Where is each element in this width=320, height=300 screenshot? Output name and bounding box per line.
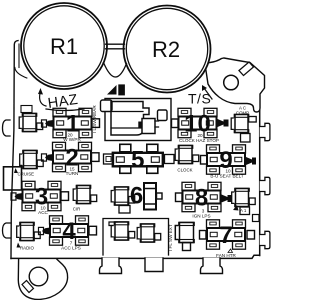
right tab 1 bbox=[260, 123, 270, 140]
fuse 4 bbox=[50, 216, 89, 245]
fuse 9 bbox=[207, 145, 246, 174]
svg-text:TURN: TURN bbox=[66, 171, 79, 176]
HAZ underline bbox=[46, 109, 84, 111]
bottom tab 2 bbox=[145, 258, 163, 272]
mounting tab notch bbox=[239, 62, 254, 76]
fuse 3 left connector bbox=[15, 193, 23, 200]
svg-text:8: 8 bbox=[195, 184, 208, 211]
foot slot bbox=[22, 281, 34, 293]
center rect corner square bbox=[101, 100, 113, 112]
fuse 3 right connector bbox=[61, 192, 69, 201]
center big rectangle bbox=[105, 99, 171, 141]
svg-text:ACC: ACC bbox=[38, 210, 48, 215]
svg-text:IGN LPS: IGN LPS bbox=[192, 214, 210, 219]
label A 1 arrow bbox=[233, 205, 239, 211]
relay row4 mid1 top bracket bbox=[109, 222, 117, 226]
mounting tab hole bbox=[224, 75, 239, 90]
panel left edge bbox=[11, 41, 18, 259]
svg-text:R1: R1 bbox=[50, 34, 78, 59]
circuit breaker R2 inner bbox=[126, 8, 207, 89]
fuse 1 right connector bbox=[92, 119, 100, 128]
fuse 8 left connector bbox=[176, 193, 183, 202]
fuse 3 bbox=[22, 181, 61, 210]
relay cig bbox=[73, 185, 97, 203]
left tab 1 bbox=[3, 120, 11, 136]
fuse 5 left connector bbox=[104, 154, 114, 164]
A/C comp below square bbox=[241, 134, 251, 143]
svg-text:CLOCK: CLOCK bbox=[177, 168, 192, 173]
relay row3 mid bbox=[111, 187, 135, 205]
HAZ arrow bbox=[40, 93, 46, 106]
bottom sub rectangle bbox=[103, 219, 169, 256]
center relay square bbox=[142, 119, 155, 134]
fuse 1 bbox=[53, 108, 92, 137]
svg-text:6: 6 bbox=[130, 183, 143, 210]
relay row2 left bbox=[20, 150, 44, 168]
right tab 3 bbox=[260, 231, 270, 248]
fuse 2 right connector bbox=[92, 153, 100, 162]
svg-text:RADIO: RADIO bbox=[20, 246, 34, 251]
fuse 5 bbox=[113, 144, 163, 173]
relay row4 mid1 bbox=[111, 222, 135, 240]
svg-text:FAN HTR: FAN HTR bbox=[216, 253, 236, 258]
mounting tab right of R2 bbox=[205, 58, 265, 112]
svg-text:CRUISE: CRUISE bbox=[18, 172, 35, 177]
relay row3 mid below rect bbox=[119, 206, 130, 214]
fuse 5 right connector bbox=[165, 155, 175, 164]
relay ign bbox=[175, 222, 194, 250]
center small rounded square bbox=[158, 110, 168, 121]
relay row1 left bbox=[19, 113, 43, 131]
fuse 7 right connector bbox=[247, 231, 255, 240]
right tab 2 bbox=[260, 177, 270, 194]
fuse 2 bbox=[53, 142, 92, 171]
fuse 4 right connector bbox=[89, 226, 97, 235]
left tab 2 bbox=[4, 167, 22, 190]
black icon triangle bbox=[107, 85, 117, 95]
fuse 7 left connector bbox=[200, 231, 207, 240]
relay radio bbox=[17, 222, 41, 240]
fuse 2 left connector bbox=[45, 154, 53, 161]
wire left fillet to R1 bbox=[15, 68, 27, 79]
svg-text:CLOCK HAZ STOP: CLOCK HAZ STOP bbox=[179, 138, 219, 143]
foot hole bbox=[29, 267, 48, 286]
svg-text:CIR: CIR bbox=[73, 207, 81, 212]
black icon bar bbox=[118, 84, 125, 95]
svg-text:A 1: A 1 bbox=[240, 208, 247, 213]
bottom-left foot bbox=[18, 259, 67, 299]
svg-text:COMP: COMP bbox=[236, 111, 249, 116]
left tab 3 bbox=[3, 223, 11, 238]
fuse 8 right arrow bbox=[222, 195, 232, 203]
svg-text:ACC LPS: ACC LPS bbox=[61, 246, 81, 251]
svg-text:7: 7 bbox=[219, 222, 232, 249]
svg-text:5: 5 bbox=[131, 146, 144, 173]
fuse 9 right arrow bbox=[246, 157, 256, 165]
svg-text:W W/PR: W W/PR bbox=[63, 137, 81, 142]
circuit breaker R1 inner bbox=[24, 6, 104, 86]
fuse 10 bbox=[178, 108, 217, 137]
svg-text:I FL SW EXT: I FL SW EXT bbox=[168, 224, 173, 251]
bottom edge bbox=[11, 255, 260, 258]
svg-text:B-U SEAT BELT: B-U SEAT BELT bbox=[210, 174, 243, 179]
fuse 4 left connector bbox=[42, 228, 50, 235]
fuse 7 bbox=[207, 220, 246, 249]
center relay big block bbox=[111, 102, 149, 136]
right edge bbox=[259, 94, 261, 256]
T/S arrow bbox=[204, 88, 212, 99]
fuse 10 right arrow bbox=[218, 119, 229, 127]
component near right edge bbox=[253, 215, 260, 222]
fuse 6 vertical bbox=[144, 183, 162, 210]
circuit breaker R1 outer bbox=[21, 3, 107, 89]
wire web fillet below circles bbox=[104, 63, 127, 78]
wire bridge between R1 R2 bbox=[106, 44, 125, 49]
wire left inner line bbox=[18, 44, 20, 68]
svg-text:R2: R2 bbox=[152, 37, 180, 62]
relay A/C comp bbox=[231, 114, 256, 132]
fuse 9 left connector bbox=[201, 156, 208, 165]
bottom tab 1 bbox=[100, 258, 122, 274]
fuse 1 left connector bbox=[45, 120, 53, 127]
relay row1 small top rect bbox=[21, 106, 32, 113]
relay row3 right below square bbox=[240, 207, 250, 215]
relay row4 mid2 bbox=[137, 224, 161, 242]
bottom tab 3 bbox=[201, 258, 223, 274]
fuse 10 left connector bbox=[172, 119, 179, 128]
fuse 8 bbox=[182, 182, 221, 211]
relay clock bbox=[175, 145, 199, 163]
circuit breaker R2 outer bbox=[124, 6, 211, 93]
relay row3 right bbox=[232, 188, 256, 206]
label FAN HTR bbox=[228, 249, 233, 253]
